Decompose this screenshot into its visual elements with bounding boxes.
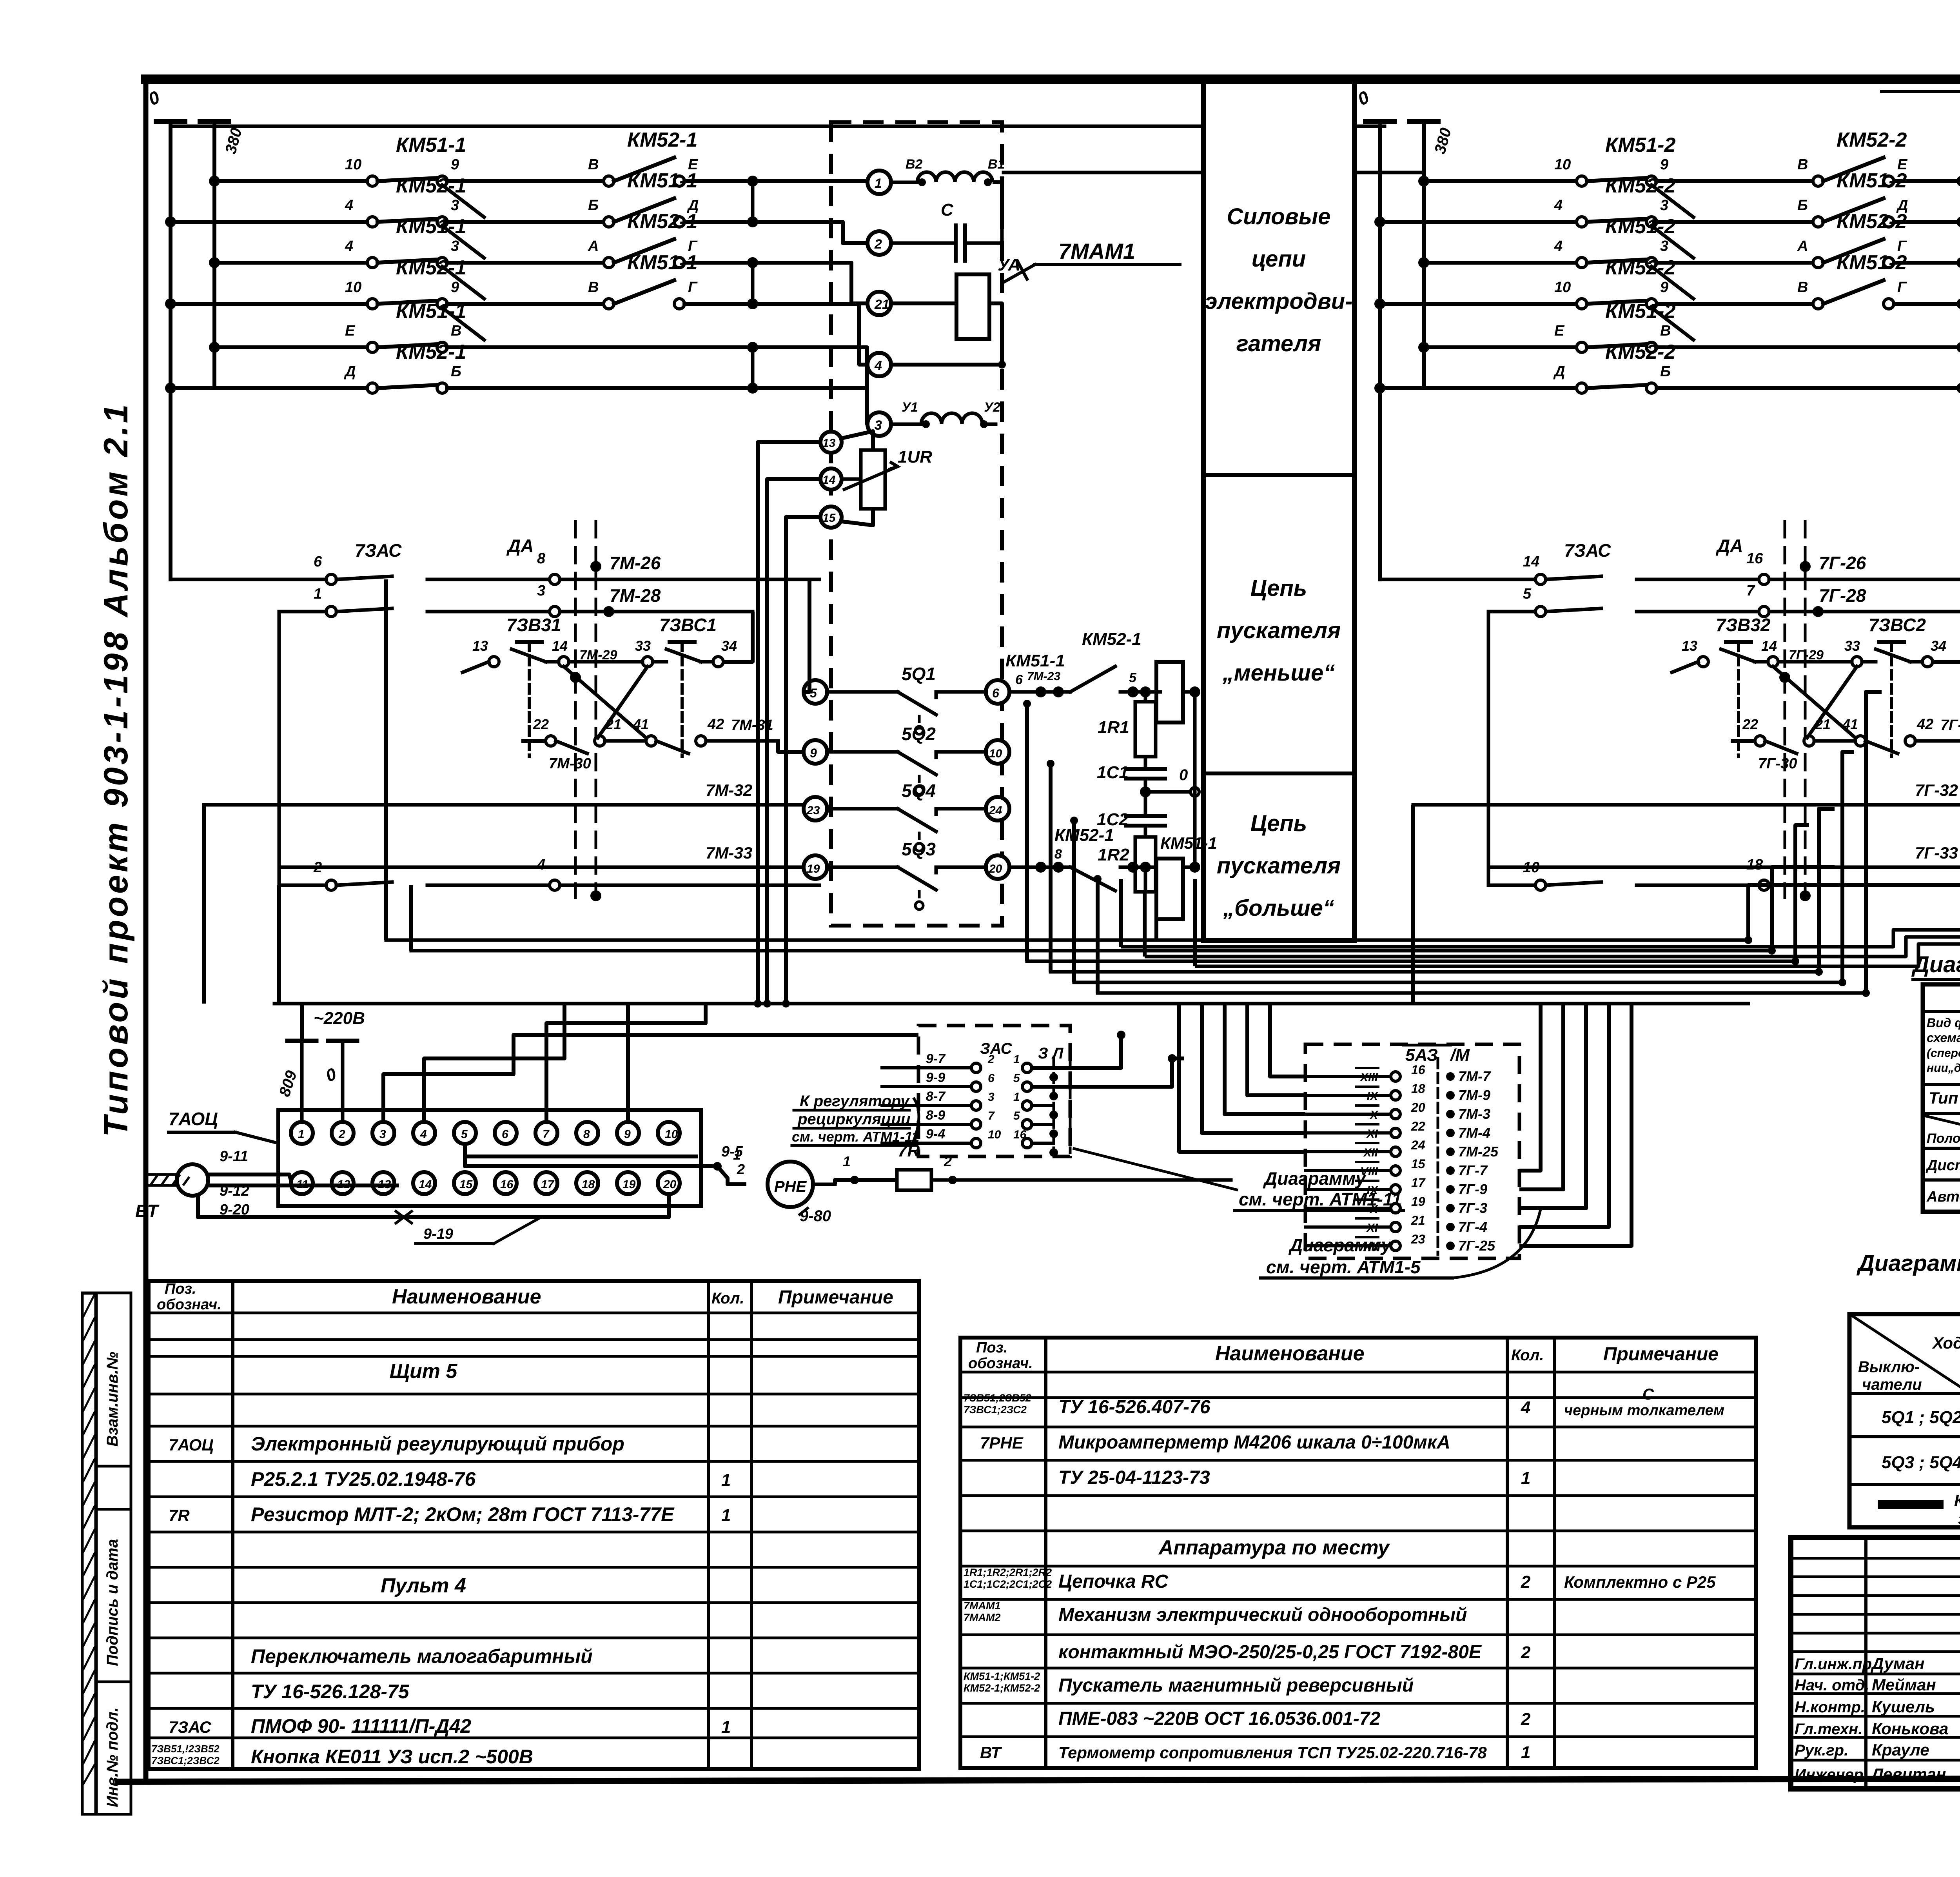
svg-text:ПМЕ-083 ~220В ОСТ 16.0536.001: ПМЕ-083 ~220В ОСТ 16.0536.001-72 (1058, 1708, 1380, 1729)
limit contact 5Q4 (half 1) (827, 781, 986, 851)
terminal 15 of 7АОЦ (454, 1172, 476, 1194)
svg-text:ТУ 16-526.407-76: ТУ 16-526.407-76 (1058, 1397, 1210, 1418)
svg-text:9: 9 (810, 746, 817, 760)
terminal 9 of 7АОЦ (617, 1122, 639, 1144)
svg-text:4: 4 (345, 197, 353, 214)
svg-text:6: 6 (988, 1072, 995, 1085)
svg-text:3: 3 (379, 1128, 386, 1141)
rheostat 1UR (half 1) (842, 431, 932, 525)
svg-text:Диаграмма работы конечных: Диаграмма работы конечных (1856, 1251, 1960, 1276)
connector 5АЗ inner dashed link (1437, 1058, 1439, 1254)
parts row Щит 5 (390, 1360, 458, 1383)
function label box (half 1) (1203, 82, 1354, 940)
svg-text:цепи: цепи (1252, 246, 1306, 272)
svg-text:Цепь: Цепь (1250, 575, 1307, 601)
svg-text:ТУ 25-04-1123-73: ТУ 25-04-1123-73 (1058, 1467, 1210, 1488)
horizontal routing bundle (274, 930, 1960, 1004)
svg-text:5: 5 (1523, 586, 1532, 602)
svg-text:7М-30: 7М-30 (549, 755, 591, 772)
contactor contact row 1 КМ51-2 (half 2) (1418, 129, 1960, 217)
parts2 row контактный МЭО-250/25-0,25 ГОСТ 7192-80Е (1058, 1642, 1531, 1663)
svg-text:8-9: 8-9 (926, 1108, 945, 1123)
feed wire terminal5 (half 1) (804, 579, 809, 692)
terminal block 7АОЦ (278, 1110, 701, 1206)
bus L2 (half 2) (1409, 122, 1455, 388)
svg-text:черным толкателем: черным толкателем (1564, 1402, 1724, 1419)
drop wires to routing bundle (half 1) (1023, 700, 1195, 993)
svg-text:6: 6 (502, 1128, 508, 1141)
row Дистанционное (1926, 1151, 1960, 1177)
svg-text:Тип пакетов: Тип пакетов (1929, 1089, 1960, 1107)
svg-text:1: 1 (314, 586, 322, 602)
svg-text:Б: Б (1660, 363, 1671, 380)
svg-text:Б: Б (451, 363, 461, 380)
terminal 2 of 7АОЦ (332, 1122, 354, 1144)
svg-text:КМ51-1: КМ51-1 (627, 169, 697, 192)
svg-text:7Г-30: 7Г-30 (1758, 755, 1797, 772)
parts row Пульт 4 (381, 1574, 466, 1597)
svg-text:КМ51-2: КМ51-2 (1605, 134, 1675, 156)
svg-text:Рук.гр.: Рук.гр. (1795, 1742, 1848, 1759)
feed line top L1 to right half (171, 125, 1385, 128)
svg-text:КМ51-2: КМ51-2 (1837, 169, 1907, 192)
limit contact 5Q3 (half 1) (827, 839, 986, 909)
svg-text:7Г-32: 7Г-32 (1915, 781, 1958, 799)
svg-text:У1: У1 (902, 400, 918, 415)
terminal 10 of 7АОЦ (658, 1122, 680, 1144)
svg-text:КМ52-1: КМ52-1 (1082, 630, 1142, 649)
svg-text:3: 3 (451, 238, 459, 254)
svg-text:Вид фланца и: Вид фланца и (1927, 1016, 1960, 1030)
svg-text:7: 7 (1746, 583, 1755, 599)
svg-text:З Л: З Л (1038, 1045, 1064, 1062)
svg-text:КМ52-2: КМ52-2 (1605, 341, 1675, 363)
svg-text:КМ52-1: КМ52-1 (396, 341, 466, 363)
svg-text:Гл.инж.пр.: Гл.инж.пр. (1795, 1656, 1876, 1673)
limit switch block 7ЗВ32 (half 2) (1672, 612, 1960, 757)
matrix collector wires (half 1) (747, 176, 758, 394)
svg-text:16: 16 (500, 1178, 514, 1191)
svg-text:КМ52-2: КМ52-2 (1837, 210, 1907, 233)
terminal 5 of 7АОЦ (454, 1122, 476, 1144)
limit contact 5Q1 (half 1) (827, 664, 986, 734)
capacitor C 7МАМ1 (891, 200, 1002, 261)
svg-text:3: 3 (1660, 197, 1668, 214)
terminal 5 (half 1) (804, 680, 827, 704)
wire to motor terminal 21 (half 1) (819, 263, 867, 303)
terminal 18 of 7АОЦ (576, 1172, 598, 1194)
svg-text:7М-25: 7М-25 (1458, 1144, 1499, 1160)
svg-text:7ЗВ31: 7ЗВ31 (506, 615, 561, 635)
svg-text:2: 2 (313, 859, 322, 876)
svg-text:24: 24 (989, 804, 1002, 817)
svg-text:1: 1 (843, 1153, 851, 1169)
terminal 1 of 7АОЦ (291, 1122, 313, 1144)
svg-text:18: 18 (1411, 1082, 1425, 1096)
svg-text:Пульт 4: Пульт 4 (381, 1574, 466, 1597)
svg-text:7РНЕ: 7РНЕ (980, 1434, 1024, 1452)
coil КМ52-1 upper (half 1) (1082, 630, 1200, 722)
connector ЗАС pin pair 8-9 (882, 1108, 1058, 1138)
svg-text:В: В (1797, 156, 1808, 173)
limit contact 5Q2 (half 1) (827, 724, 986, 794)
svg-text:15: 15 (1411, 1157, 1426, 1171)
wire row6 join (half 1) (819, 386, 867, 390)
svg-text:С: С (941, 200, 954, 220)
left risers from bundle (279, 579, 411, 1004)
terminal 12 of 7АОЦ (332, 1172, 354, 1194)
connector 5АЗ pin 20 wire 7М-3 (1305, 1100, 1490, 1122)
parts row ТУ 16-526.128-75 (251, 1681, 410, 1703)
svg-text:1R2: 1R2 (1098, 845, 1129, 864)
svg-text:КМ52-1: КМ52-1 (627, 129, 697, 151)
svg-text:замкнут: замкнут (1958, 1509, 1960, 1528)
svg-text:9-19: 9-19 (423, 1226, 453, 1242)
svg-text:5Q1: 5Q1 (902, 664, 936, 684)
svg-text:7М-9: 7М-9 (1458, 1087, 1490, 1103)
svg-text:7М-4: 7М-4 (1458, 1125, 1490, 1141)
svg-text:Микроамперметр М4206 шкала 0: Микроамперметр М4206 шкала 0÷100мкА (1058, 1432, 1450, 1453)
svg-text:КМ51-2: КМ51-2 (1605, 300, 1675, 323)
terminal 10 (half 1) (986, 740, 1009, 764)
svg-text:В2: В2 (906, 157, 923, 172)
parts row Резистор МЛТ-2; 2кОм; 28т ГОСТ 7113-77Е (169, 1503, 731, 1525)
svg-text:В1: В1 (988, 157, 1005, 172)
svg-text:В: В (588, 156, 599, 173)
svg-text:1: 1 (721, 1717, 731, 1737)
svg-text:10: 10 (1554, 279, 1571, 296)
svg-text:Пускатель магнитный реверсив: Пускатель магнитный реверсивный (1058, 1675, 1414, 1696)
svg-text:22: 22 (1742, 716, 1758, 732)
svg-text:4: 4 (345, 238, 353, 254)
sensor ВТ (135, 1164, 208, 1221)
svg-text:15: 15 (822, 512, 836, 525)
svg-text:34: 34 (1931, 638, 1946, 654)
svg-text:7М-28: 7М-28 (610, 585, 661, 606)
svg-text:7Г-3: 7Г-3 (1458, 1200, 1487, 1216)
wire 9-5 to meter (465, 1144, 746, 1184)
svg-text:Крауле: Крауле (1872, 1741, 1929, 1759)
svg-text:Цепь: Цепь (1250, 811, 1307, 836)
svg-text:7М-3: 7М-3 (1458, 1106, 1490, 1122)
parts2 row ТУ 16-526.407-76 (964, 1386, 1724, 1419)
svg-text:20: 20 (1411, 1100, 1425, 1115)
svg-text:7: 7 (543, 1128, 550, 1141)
svg-text:13: 13 (472, 638, 488, 654)
svg-text:7R: 7R (169, 1506, 190, 1525)
svg-text:~220В: ~220В (314, 1009, 365, 1028)
connector ЗАС pin pair 9-9 (882, 1070, 1058, 1100)
svg-text:ВТ: ВТ (980, 1743, 1002, 1762)
terminal 9 (half 1) (804, 740, 827, 764)
svg-text:Г: Г (688, 279, 698, 296)
svg-text:УА: УА (998, 255, 1020, 274)
svg-text:В: В (588, 279, 599, 296)
parts row Переключатель малогабаритный (251, 1645, 593, 1667)
svg-text:42: 42 (1916, 716, 1933, 733)
svg-text:2: 2 (1521, 1572, 1531, 1592)
svg-text:Силовые: Силовые (1227, 204, 1331, 229)
svg-text:14: 14 (822, 474, 836, 486)
svg-text:КМ52-1: КМ52-1 (1054, 826, 1114, 845)
parts2 row Цепочка RC (964, 1567, 1716, 1592)
node 0 (half 1) (1140, 766, 1199, 797)
capacitor 1C1 (half 1) (1097, 757, 1165, 792)
left half power circuit (0, 0, 0, 0)
svg-text:5Q3 ; 5Q4: 5Q3 ; 5Q4 (1882, 1453, 1960, 1472)
terminal 20 of 7АОЦ (658, 1172, 680, 1194)
svg-text:3: 3 (537, 583, 545, 599)
svg-text:Инженер: Инженер (1795, 1766, 1863, 1783)
svg-text:КМ52-1: КМ52-1 (396, 256, 466, 279)
svg-text:Кушель: Кушель (1872, 1697, 1935, 1716)
svg-text:Дистанционное: Дистанционное (1926, 1157, 1960, 1174)
svg-text:Левитан: Левитан (1871, 1765, 1946, 1783)
parts row Р25.2.1 ТУ25.02.1948-76 (251, 1468, 731, 1490)
svg-text:5: 5 (1013, 1109, 1020, 1122)
svg-text:пускателя: пускателя (1217, 853, 1341, 879)
svg-text:9-20: 9-20 (220, 1202, 249, 1218)
supply ~220В (276, 1009, 365, 1121)
parts table Аппаратура (960, 1338, 1756, 1768)
contactor contact row 2 КМ52-1 (half 1) (165, 169, 819, 258)
svg-text:7Г-31: 7Г-31 (1940, 717, 1960, 733)
solenoid YA (half 1) (891, 255, 1020, 369)
limit switch table (1849, 1314, 1960, 1527)
terminal 13 of 7АОЦ (372, 1172, 394, 1194)
svg-text:2: 2 (874, 237, 882, 252)
wire terminal6 to coils (half 1) (1005, 651, 1160, 697)
svg-text:Термометр сопротивления ТСП ТУ: Термометр сопротивления ТСП ТУ25.02-220.… (1058, 1743, 1487, 1762)
terminal 3 of 7АОЦ (372, 1122, 394, 1144)
svg-text:пускателя: пускателя (1217, 618, 1341, 643)
svg-text:1: 1 (1013, 1053, 1020, 1066)
parts row Кнопка КЕ011 УЗ исп.2 ~500В (151, 1743, 533, 1768)
svg-text:16: 16 (1013, 1128, 1027, 1141)
svg-text:КМ51-1: КМ51-1 (396, 215, 466, 238)
svg-text:1: 1 (733, 1147, 741, 1163)
svg-text:ЗАС: ЗАС (980, 1040, 1013, 1057)
svg-text:13: 13 (1682, 638, 1697, 654)
svg-text:16: 16 (1746, 550, 1763, 567)
connector 5АЗ pin 19 wire 7Г-3 (1305, 1194, 1487, 1216)
svg-text:В: В (1797, 279, 1808, 296)
svg-text:Гл.техн.: Гл.техн. (1795, 1721, 1862, 1738)
terminal 13 (half 1) (820, 432, 842, 453)
svg-text:7ЗАС: 7ЗАС (169, 1718, 212, 1736)
svg-text:Комплектно с Р25: Комплектно с Р25 (1564, 1573, 1716, 1591)
svg-text:Типовой проект 903-1: Типовой проект 903-1-198 Альбом 2.1 (97, 402, 135, 1137)
svg-text:РНЕ: РНЕ (774, 1178, 807, 1195)
svg-text:0: 0 (1179, 766, 1188, 784)
label Цепь пускателя больше (half 1) (1217, 811, 1341, 921)
document stamp strip (82, 1293, 131, 1814)
terminal 7 of 7АОЦ (535, 1122, 557, 1144)
svg-text:1: 1 (1013, 1091, 1020, 1104)
svg-text:У2: У2 (984, 400, 1000, 415)
svg-text:20: 20 (989, 862, 1002, 875)
svg-text:Наименование: Наименование (1215, 1342, 1365, 1365)
svg-text:1С1;1С2;2С1;2С2: 1С1;1С2;2С1;2С2 (964, 1578, 1052, 1590)
svg-text:Наименование: Наименование (392, 1285, 541, 1308)
svg-text:7М-32: 7М-32 (706, 781, 752, 799)
parts row blank (0, 0, 0, 0)
svg-text:(спереди) в полож.: (спереди) в полож. (1927, 1047, 1960, 1060)
parts row ПМОФ 90- 111111/П-Д42 (169, 1715, 731, 1737)
svg-text:7МАМ1: 7МАМ1 (964, 1600, 1001, 1612)
svg-text:9-7: 9-7 (926, 1051, 946, 1066)
svg-text:КМ52-2: КМ52-2 (1605, 174, 1675, 197)
connector ЗАС pin pair 8-7 (882, 1089, 1058, 1119)
svg-text:Аппаратура по месту: Аппаратура по месту (1158, 1536, 1391, 1559)
coil КМ51-1 lower (half 1) (1156, 834, 1217, 919)
connector 5АЗ pin 17 wire 7Г-9 (1305, 1176, 1487, 1197)
motor winding B1-B2 (half 1) (891, 157, 1005, 220)
wire 7Г-32 (half 2) (1413, 781, 1960, 1004)
routing loop returns (1154, 917, 1158, 940)
svg-text:8: 8 (583, 1128, 590, 1141)
label Силовые цепи электродвигателя (half 1) (1205, 204, 1352, 356)
bus L2 (half 1) (200, 122, 245, 388)
svg-text:7ЗВ32: 7ЗВ32 (1716, 615, 1771, 635)
svg-text:7ЗВ51;2ЗВ52: 7ЗВ51;2ЗВ52 (964, 1392, 1031, 1404)
svg-text:С: С (1642, 1386, 1654, 1403)
bundle risers to right half (1744, 692, 1960, 997)
svg-text:18: 18 (1746, 857, 1763, 873)
svg-text:22: 22 (1411, 1119, 1425, 1133)
svg-text:7Г-4: 7Г-4 (1458, 1219, 1487, 1235)
svg-text:10: 10 (989, 747, 1002, 760)
limit switch lower contact row (half 1) (521, 666, 804, 772)
svg-text:Кол.: Кол. (711, 1290, 744, 1307)
connector ЗАС dashed box (918, 1026, 1070, 1156)
svg-text:8: 8 (1054, 847, 1062, 862)
svg-text:23: 23 (1411, 1232, 1425, 1246)
wire 2-4 row (half 2) (1488, 857, 1960, 890)
resistor 1R2 (half 1) (1098, 837, 1156, 892)
svg-text:Подпись и дата: Подпись и дата (104, 1539, 121, 1666)
svg-text:7Г-25: 7Г-25 (1458, 1238, 1495, 1254)
svg-text:4: 4 (1554, 238, 1563, 254)
svg-text:1: 1 (298, 1128, 305, 1141)
svg-text:Цепочка RC: Цепочка RC (1058, 1571, 1169, 1592)
svg-text:КМ51-2: КМ51-2 (1837, 251, 1907, 274)
vertical feed (half 1) (278, 612, 281, 885)
wire to motor terminal 2 (half 1) (819, 222, 867, 243)
svg-text:Конькова: Конькова (1872, 1719, 1948, 1738)
svg-text:Взам.инв.№: Взам.инв.№ (104, 1352, 121, 1447)
svg-text:Переключатель малогабаритный: Переключатель малогабаритный (251, 1645, 593, 1667)
svg-text:16: 16 (1411, 1063, 1425, 1077)
svg-text:Диаграмма работы переключате: Диаграмма работы переключателя 7ЗАЗ (1911, 952, 1960, 977)
svg-text:9: 9 (1660, 156, 1668, 173)
svg-text:7Г-28: 7Г-28 (1819, 585, 1866, 606)
matrix collector wires (half 2) (1956, 176, 1960, 394)
svg-text:5Q2: 5Q2 (902, 724, 936, 744)
svg-text:7АОЦ: 7АОЦ (169, 1436, 214, 1454)
svg-text:1R1: 1R1 (1098, 718, 1129, 737)
svg-text:Автоматическое: Автоматическое (1926, 1189, 1960, 1205)
svg-text:КМ52-2: КМ52-2 (1837, 129, 1907, 151)
contactor contact row 6 КМ52-1 (half 1) (165, 341, 819, 394)
svg-text:19: 19 (622, 1178, 636, 1191)
svg-text:7ЗВС1;2ЗВС2: 7ЗВС1;2ЗВС2 (151, 1755, 220, 1766)
svg-text:КМ52-2: КМ52-2 (1605, 256, 1675, 279)
switch 7ЗАС contact row (half 1) (171, 536, 819, 585)
svg-text:7ЗВ51,!2ЗВ52: 7ЗВ51,!2ЗВ52 (151, 1743, 220, 1755)
svg-text:7ЗВС1;2ЗС2: 7ЗВС1;2ЗС2 (964, 1404, 1027, 1416)
svg-text:Думан: Думан (1871, 1654, 1925, 1673)
contactor contact row 6 КМ52-2 (half 2) (1374, 341, 1960, 394)
title block frame (1791, 1538, 1960, 1789)
callout К регулятору рециркуляции (792, 1093, 919, 1145)
label Цепь пускателя меньше (half 1) (1217, 575, 1341, 686)
terminal 19 (half 1) (804, 855, 827, 879)
svg-text:7Г-9: 7Г-9 (1458, 1181, 1487, 1197)
terminal 20 (half 1) (986, 855, 1009, 879)
svg-text:20: 20 (663, 1178, 677, 1191)
actuator 7МАМ1 dashed boundary (831, 122, 1002, 926)
terminal 4 of 7АОЦ (413, 1122, 435, 1144)
svg-text:Е: Е (1554, 323, 1565, 339)
svg-text:3: 3 (988, 1091, 995, 1104)
wire label 9-19 (416, 1217, 541, 1243)
svg-text:14: 14 (1761, 638, 1777, 654)
parts2 row Механизм электрический однооборотный (964, 1600, 1467, 1625)
parts table 1 header (157, 1281, 893, 1313)
svg-text:7М-31: 7М-31 (731, 717, 773, 733)
svg-text:4: 4 (537, 857, 545, 873)
motor terminals column (half 1) (867, 171, 891, 436)
svg-text:10: 10 (988, 1128, 1001, 1141)
svg-text:КМ52-1;КМ52-2: КМ52-1;КМ52-2 (964, 1682, 1040, 1694)
svg-text:17: 17 (541, 1178, 555, 1191)
svg-text:15: 15 (459, 1178, 473, 1191)
svg-text:7МАМ2: 7МАМ2 (964, 1612, 1001, 1623)
svg-text:ДА: ДА (1715, 536, 1743, 556)
svg-text:10: 10 (1523, 859, 1539, 876)
svg-text:1С1: 1С1 (1097, 763, 1129, 782)
svg-text:1: 1 (1521, 1743, 1530, 1762)
svg-text:Механизм электрический однообо: Механизм электрический однооборотный (1058, 1605, 1467, 1625)
svg-text:33: 33 (635, 638, 651, 654)
svg-text:1: 1 (875, 176, 882, 191)
svg-text:Поз.: Поз. (976, 1340, 1008, 1356)
connector ЗАС inner dashed link (1054, 1058, 1070, 1153)
title block signature grid (1791, 1538, 1960, 1789)
ЗАС output wires (1032, 1031, 1184, 1087)
terminal 17 of 7АОЦ (535, 1172, 557, 1194)
svg-text:7ЗАС: 7ЗАС (355, 540, 402, 561)
svg-text:2: 2 (737, 1161, 745, 1177)
svg-text:18: 18 (582, 1178, 595, 1191)
label 7АОЦ (169, 1109, 276, 1143)
connector 5АЗ label (1403, 1045, 1470, 1065)
svg-text:7: 7 (988, 1109, 995, 1122)
svg-text:2: 2 (338, 1128, 345, 1141)
nested routing loops left of 5АЗ (1179, 1004, 1305, 1152)
wire 7М-32 (half 1) (204, 781, 804, 1004)
svg-text:3: 3 (1660, 238, 1668, 254)
svg-text:4: 4 (1521, 1398, 1530, 1417)
svg-text:Инв.№ подл.: Инв.№ подл. (104, 1707, 121, 1807)
terminal strip riser wires (302, 1004, 918, 1156)
svg-text:К регулятору: К регулятору (800, 1093, 910, 1110)
svg-text:1R1;1R2;2R1;2R2: 1R1;1R2;2R1;2R2 (964, 1567, 1052, 1578)
svg-text:7Г-33: 7Г-33 (1915, 844, 1958, 862)
contactor contact row 4 КМ52-1 (half 1) (165, 251, 819, 340)
svg-text:КМ51-1: КМ51-1 (396, 134, 466, 156)
